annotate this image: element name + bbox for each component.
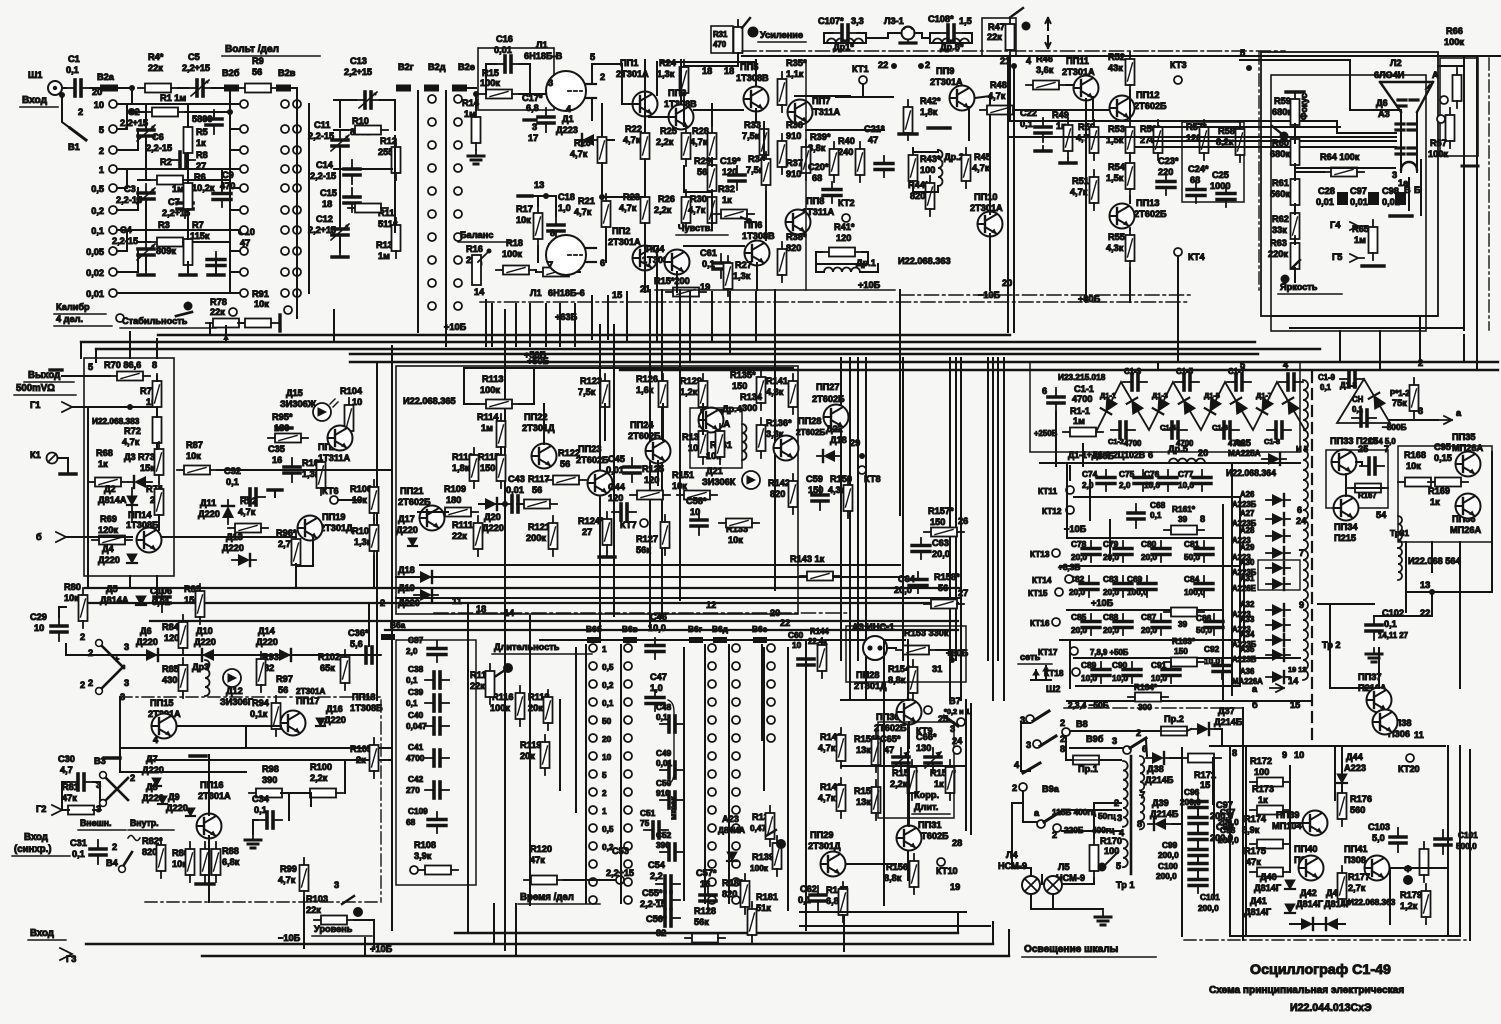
resistor R107	[370, 518, 379, 558]
resistor R137	[766, 806, 775, 846]
wafer stub 7	[230, 250, 240, 252]
svg-text:18: 18	[322, 199, 332, 209]
wafer B2v contact left 2	[281, 146, 289, 154]
svg-text:2,2-15: 2,2-15	[310, 171, 336, 181]
chassis chain line top	[742, 50, 1285, 52]
svg-text:КТ1: КТ1	[852, 64, 869, 74]
switch contact col1 2	[589, 680, 597, 688]
svg-text:6: 6	[1142, 744, 1147, 754]
korr wire pp29	[846, 863, 896, 865]
svg-text:5: 5	[590, 52, 595, 62]
wire amp row117	[649, 116, 668, 118]
box R66	[1440, 58, 1478, 156]
svg-text:1м: 1м	[378, 251, 390, 261]
switch В8 contact	[1062, 728, 1070, 736]
resistor R175	[1250, 868, 1290, 877]
korr frame right a	[965, 700, 967, 830]
rail pp23	[599, 450, 601, 470]
switch В7 lever	[944, 716, 958, 726]
mains wire 220	[1062, 830, 1121, 832]
filter capacitor column cap 0	[1189, 794, 1207, 815]
wafer B2d contact 6	[428, 233, 436, 241]
svg-text:0,1: 0,1	[254, 805, 267, 815]
capacitor C13 trimmer	[356, 92, 380, 108]
HV capacitor C1-3 bottom	[1163, 422, 1187, 438]
resistor R7	[184, 232, 193, 272]
crt bottom line1	[1271, 315, 1436, 317]
svg-text:4: 4	[153, 735, 159, 745]
svg-text:R69: R69	[100, 514, 117, 524]
capacitor C30	[69, 774, 93, 790]
svg-text:2,2к: 2,2к	[654, 205, 672, 215]
svg-text:C19*: C19*	[720, 156, 741, 166]
diode Д1	[576, 134, 600, 146]
svg-text:R141: R141	[766, 376, 788, 386]
deflection step wire 2	[1271, 121, 1396, 133]
switch contact col2 8	[624, 788, 632, 796]
svg-text:2: 2	[1060, 718, 1065, 728]
svg-text:R135*: R135*	[730, 370, 756, 380]
resistor R95	[268, 434, 308, 443]
svg-text:13: 13	[1420, 580, 1430, 590]
rail B2d	[417, 91, 419, 306]
rail C4b	[145, 258, 147, 262]
switch В7 contact	[957, 718, 965, 726]
rail r123	[604, 404, 606, 440]
rail pp24 em	[657, 461, 659, 485]
svg-text:5,0: 5,0	[1372, 833, 1385, 843]
wafer B2d contact 2	[428, 141, 436, 149]
resistor R113	[479, 400, 519, 409]
HV diode Д1-9	[1369, 393, 1385, 409]
wire r19-tube	[576, 271, 580, 273]
wire neon	[887, 647, 896, 649]
lamp stem	[907, 40, 909, 43]
resistor R101	[317, 455, 326, 495]
resistor R128	[685, 934, 725, 943]
bottom bus 1	[455, 932, 958, 934]
resistor R10	[348, 126, 388, 135]
gnd bar C17	[524, 118, 536, 121]
wire кт1 stem	[862, 84, 864, 97]
diode Д37	[1191, 723, 1215, 735]
resistor R126	[659, 374, 668, 414]
capacitor C58	[691, 511, 707, 535]
bottom drop 2	[992, 922, 994, 944]
resistor R130	[699, 424, 708, 464]
rail pp12	[1129, 156, 1131, 160]
resistor R1-1	[1063, 428, 1103, 437]
svg-text:Г2: Г2	[36, 804, 46, 814]
svg-text:7: 7	[548, 260, 553, 270]
CRT plate bars row3	[1396, 148, 1416, 154]
capacitor C78	[1082, 541, 1100, 562]
R32 wiper	[746, 218, 752, 224]
rail tb 1	[575, 648, 577, 812]
wafer stub 0	[230, 103, 240, 105]
wafer B2e contact 0	[454, 95, 462, 103]
right edge line 2	[1476, 58, 1478, 335]
svg-text:R136*: R136*	[766, 418, 792, 428]
rail 712b	[711, 158, 713, 166]
capacitor C16	[496, 56, 520, 72]
Р47 knob	[1022, 22, 1031, 31]
diode Д19	[414, 589, 438, 601]
svg-text:ПП34: ПП34	[1334, 522, 1358, 532]
switch В6г bar	[689, 637, 703, 643]
svg-text:C49: C49	[656, 749, 672, 758]
svg-text:C99: C99	[1162, 841, 1178, 850]
rail B2e	[445, 91, 447, 306]
switch contact col3 14	[708, 896, 716, 904]
wafer B2v contact left 5	[281, 206, 289, 214]
deflection wire 5	[1135, 146, 1281, 148]
deflection step wire 1	[1240, 60, 1401, 110]
R16 wiper	[478, 252, 488, 262]
capacitor C42	[425, 782, 449, 798]
svg-text:Д814А: Д814А	[100, 595, 129, 605]
svg-text:Чувств.: Чувств.	[678, 223, 713, 233]
svg-text:0,1: 0,1	[91, 226, 104, 236]
svg-text:2,2÷15: 2,2÷15	[120, 118, 148, 128]
crt drop 2	[1379, 331, 1381, 370]
switch contact col1 6	[589, 752, 597, 760]
switch contact col3 4	[708, 716, 716, 724]
svg-text:C23*: C23*	[1158, 156, 1179, 166]
svg-text:4,3к: 4,3к	[1106, 243, 1124, 253]
svg-text:ПП4: ПП4	[646, 244, 665, 254]
knob R59	[1280, 132, 1289, 141]
svg-text:П308: П308	[1344, 855, 1366, 865]
diode Д16 symbol	[316, 718, 325, 726]
ground C102	[1366, 648, 1382, 662]
resistor R156	[910, 854, 919, 894]
pp16 down wire	[208, 836, 210, 902]
svg-text:4,7к: 4,7к	[278, 875, 296, 885]
svg-text:Г4: Г4	[1330, 220, 1341, 230]
switch В9б lever	[1130, 738, 1146, 748]
svg-text:2Т602Б: 2Т602Б	[398, 497, 431, 507]
svg-text:6,8к: 6,8к	[222, 857, 240, 867]
korr rail 2	[908, 766, 910, 826]
resistor R148	[837, 728, 846, 768]
svg-text:27: 27	[582, 527, 592, 537]
wire lamp right	[915, 33, 930, 38]
bus wire low c	[150, 620, 958, 622]
svg-text:1,5к: 1,5к	[1106, 173, 1124, 183]
transistor ПП12	[1110, 96, 1135, 121]
tube Л1 triode A anode	[586, 83, 596, 85]
svg-text:Тр31: Тр31	[1390, 529, 1409, 538]
attenuator tap contact 5	[109, 125, 117, 133]
resistor R20	[598, 130, 607, 170]
svg-text:2: 2	[925, 60, 930, 70]
svg-text:1,8к: 1,8к	[452, 463, 470, 473]
svg-text:R62: R62	[1272, 214, 1289, 224]
svg-text:0,15: 0,15	[1434, 453, 1452, 463]
svg-text:R124*: R124*	[578, 516, 604, 526]
drop cal a	[80, 342, 82, 358]
svg-text:22к: 22к	[987, 32, 1002, 42]
svg-text:680к: 680к	[1270, 149, 1290, 159]
svg-text:200к: 200к	[526, 533, 546, 543]
resistor R60	[1291, 132, 1300, 172]
svg-text:3: 3	[1117, 813, 1122, 823]
underline освещение	[1022, 956, 1156, 958]
resistor R68	[88, 478, 128, 487]
switch В4 lever	[122, 852, 132, 868]
svg-text:3: 3	[1392, 170, 1397, 180]
bus wire f	[620, 369, 1498, 371]
svg-text:R88: R88	[222, 846, 239, 856]
capacitor C82	[1080, 576, 1098, 597]
wafer stub 4	[230, 187, 240, 189]
wire C13 left	[334, 99, 356, 101]
deflection vert a	[1408, 178, 1410, 210]
wafer B2e contact 6	[454, 233, 462, 241]
svg-text:ПП6: ПП6	[744, 220, 762, 230]
svg-text:200,0: 200,0	[1156, 872, 1177, 881]
svg-text:0,1к: 0,1к	[250, 709, 268, 719]
resistor R133	[719, 519, 759, 528]
svg-text:Д6: Д6	[1376, 98, 1388, 108]
svg-text:Уровень: Уровень	[314, 924, 353, 934]
svg-text:100к: 100к	[480, 78, 500, 88]
svg-text:C92: C92	[1204, 645, 1220, 654]
capacitor C48	[660, 716, 684, 732]
resistor R41	[822, 248, 862, 257]
diode Д44 symbol	[1337, 774, 1347, 783]
svg-text:2,2: 2,2	[650, 871, 663, 881]
svg-text:C63: C63	[932, 538, 949, 548]
svg-text:R113: R113	[482, 374, 503, 384]
svg-text:910: 910	[786, 169, 801, 179]
resistor R103 pot	[314, 916, 354, 925]
attenuator tap contact 0,1	[109, 226, 117, 234]
svg-text:Д2: Д2	[104, 484, 116, 494]
svg-text:А32: А32	[1240, 600, 1255, 609]
bank bus -50	[1067, 700, 1310, 702]
module bottom wire 1	[420, 564, 900, 566]
svg-text:СН: СН	[1352, 395, 1364, 404]
terminal theta1	[1440, 96, 1448, 104]
svg-text:1: 1	[602, 645, 607, 654]
wire tap02	[117, 188, 138, 210]
connector Г4 symbol	[1350, 222, 1364, 230]
transistor ПП36	[1456, 494, 1481, 519]
HV capacitor C1-4 bottom	[1215, 422, 1239, 438]
svg-text:R175: R175	[1244, 846, 1266, 856]
rail R63 down	[1294, 268, 1296, 282]
svg-text:В6г: В6г	[688, 625, 703, 634]
underline время	[518, 903, 600, 905]
svg-text:0,1: 0,1	[406, 676, 418, 685]
resistor R12	[392, 140, 401, 180]
svg-text:ПП16: ПП16	[200, 780, 223, 790]
svg-text:А25: А25	[1234, 438, 1251, 448]
svg-text:R64 100к: R64 100к	[1320, 152, 1360, 162]
svg-text:2,2к: 2,2к	[310, 773, 328, 783]
korr rail 1	[908, 722, 910, 748]
svg-text:2Т602Б: 2Т602Б	[796, 428, 825, 437]
capacitor C79	[1114, 541, 1132, 562]
resistor R154	[909, 660, 918, 700]
svg-text:4,7к: 4,7к	[574, 207, 592, 217]
resistor R161	[1164, 526, 1204, 535]
svg-text:17: 17	[528, 133, 538, 143]
svg-text:120: 120	[836, 233, 851, 243]
svg-text:7,5к: 7,5к	[742, 131, 760, 141]
svg-text:−10Б: −10Б	[278, 933, 301, 943]
svg-text:R68: R68	[96, 448, 113, 458]
svg-text:R80: R80	[64, 582, 81, 592]
diode А33	[1266, 619, 1290, 631]
svg-text:15к: 15к	[140, 463, 155, 473]
resistor R109	[438, 508, 478, 517]
wafer B2e contact 5	[454, 210, 462, 218]
diode А23 symbol	[727, 852, 737, 861]
svg-text:КТ6: КТ6	[322, 486, 339, 496]
svg-text:Д220: Д220	[256, 637, 278, 647]
svg-text:10: 10	[602, 753, 612, 762]
transistor ПП1	[633, 92, 658, 117]
svg-text:R9: R9	[252, 56, 264, 66]
svg-text:В6е: В6е	[752, 625, 768, 634]
switch В9б contact	[1123, 746, 1131, 754]
svg-text:1к: 1к	[722, 195, 732, 205]
svg-text:R38*: R38*	[786, 232, 807, 242]
test point КТ11 circle	[1066, 486, 1074, 494]
gnd bar top R59	[1286, 90, 1304, 93]
svg-text:Др3: Др3	[192, 662, 209, 672]
wafer B2d contact 7	[428, 256, 436, 264]
node r70	[127, 404, 133, 410]
wire Г1	[72, 406, 157, 408]
capacitor C17	[538, 108, 554, 132]
diode Д43	[1320, 918, 1344, 930]
gnd bar Г1 left	[50, 368, 62, 371]
svg-text:2Т301А: 2Т301А	[608, 237, 641, 247]
resistor R98	[249, 789, 289, 798]
svg-text:Др.4: Др.4	[722, 404, 743, 414]
svg-text:А223: А223	[1344, 763, 1366, 773]
transistor ПП27	[824, 405, 849, 430]
svg-text:5: 5	[1240, 48, 1245, 58]
transformer Тр3 winding	[1398, 516, 1402, 548]
wire б	[66, 536, 132, 538]
svg-text:Д7: Д7	[146, 754, 158, 764]
resistor R54	[1126, 156, 1135, 196]
svg-text:50: 50	[602, 717, 612, 726]
drop from R91	[333, 310, 335, 342]
svg-text:Д6: Д6	[140, 626, 152, 636]
svg-text:КТ18: КТ18	[1044, 669, 1064, 678]
switch contact col2 14	[624, 896, 632, 904]
stab wire	[296, 293, 298, 318]
svg-text:560: 560	[1350, 805, 1365, 815]
wire r70 l	[62, 375, 110, 377]
svg-text:R70 86,6: R70 86,6	[104, 360, 141, 370]
switch contact col5 1	[767, 662, 775, 670]
HV module box	[1030, 362, 1300, 452]
svg-text:R102: R102	[318, 652, 340, 662]
resistor R153	[896, 646, 936, 655]
wafer B2 right contact 7	[240, 247, 248, 255]
mains plug Ш2	[1031, 666, 1051, 680]
svg-text:20: 20	[1198, 448, 1208, 458]
HV cap C1-9	[1340, 371, 1364, 387]
node R1 left	[129, 109, 135, 115]
inductor Др5 coil	[1169, 459, 1205, 464]
svg-text:18: 18	[702, 66, 712, 76]
svg-text:R37: R37	[786, 158, 803, 168]
CRT plate bars row1	[1398, 100, 1418, 106]
LED Д15	[313, 403, 331, 421]
resistor R125	[630, 491, 670, 500]
switch contact col4 0	[732, 644, 740, 652]
capacitor C62	[810, 886, 826, 910]
resistor R19	[536, 268, 576, 277]
rail r129	[702, 404, 704, 434]
bottom drop 5	[364, 938, 366, 956]
capacitor C25	[1217, 186, 1235, 207]
resistor R36	[778, 134, 787, 174]
svg-text:4,7к: 4,7к	[690, 137, 708, 147]
svg-text:1,0: 1,0	[650, 683, 663, 693]
CRT anode arrow	[1424, 83, 1432, 90]
switch contact col3 2	[708, 680, 716, 688]
node R14	[473, 91, 479, 97]
capacitor C35	[284, 458, 300, 482]
resistor R71	[153, 374, 162, 414]
wire c16 r	[520, 64, 530, 94]
svg-text:Д37: Д37	[1218, 706, 1235, 716]
gnd c32 stem	[274, 490, 276, 497]
svg-text:R179: R179	[1400, 890, 1422, 900]
svg-text:10к: 10к	[254, 299, 269, 309]
wafer B2e contact 3	[454, 164, 462, 172]
svg-text:а: а	[1456, 408, 1462, 418]
resistor R23	[641, 190, 650, 230]
switch pole 2 circle	[1019, 783, 1027, 791]
mains left frame	[1021, 723, 1030, 771]
resistor R85	[179, 658, 188, 698]
svg-text:А30: А30	[1240, 558, 1255, 567]
resistor R124	[603, 512, 612, 552]
knob Усиление dot	[748, 27, 759, 38]
wire r18-r19	[535, 270, 537, 272]
capacitor C36	[357, 647, 381, 663]
rail pp4	[676, 272, 678, 292]
capacitor C40	[425, 718, 449, 734]
resistor R51	[1090, 170, 1099, 210]
deflection wire 1	[1150, 120, 1271, 122]
svg-text:Внешн.: Внешн.	[80, 818, 111, 828]
node top in	[129, 85, 135, 91]
resistor R52	[1126, 52, 1135, 92]
svg-text:R15: R15	[482, 68, 499, 78]
svg-text:2: 2	[1012, 783, 1017, 793]
mains wire d37 out	[1215, 729, 1222, 746]
long vertical 680	[679, 290, 681, 600]
resistor R176	[1338, 786, 1347, 826]
switch B1 wire	[62, 95, 70, 128]
svg-text:R121: R121	[528, 522, 550, 532]
capacitor C106	[154, 588, 170, 612]
svg-text:100к: 100к	[1428, 149, 1448, 159]
svg-text:И22.068.364: И22.068.364	[1226, 468, 1276, 478]
HV diode Д1-2	[1127, 398, 1143, 414]
